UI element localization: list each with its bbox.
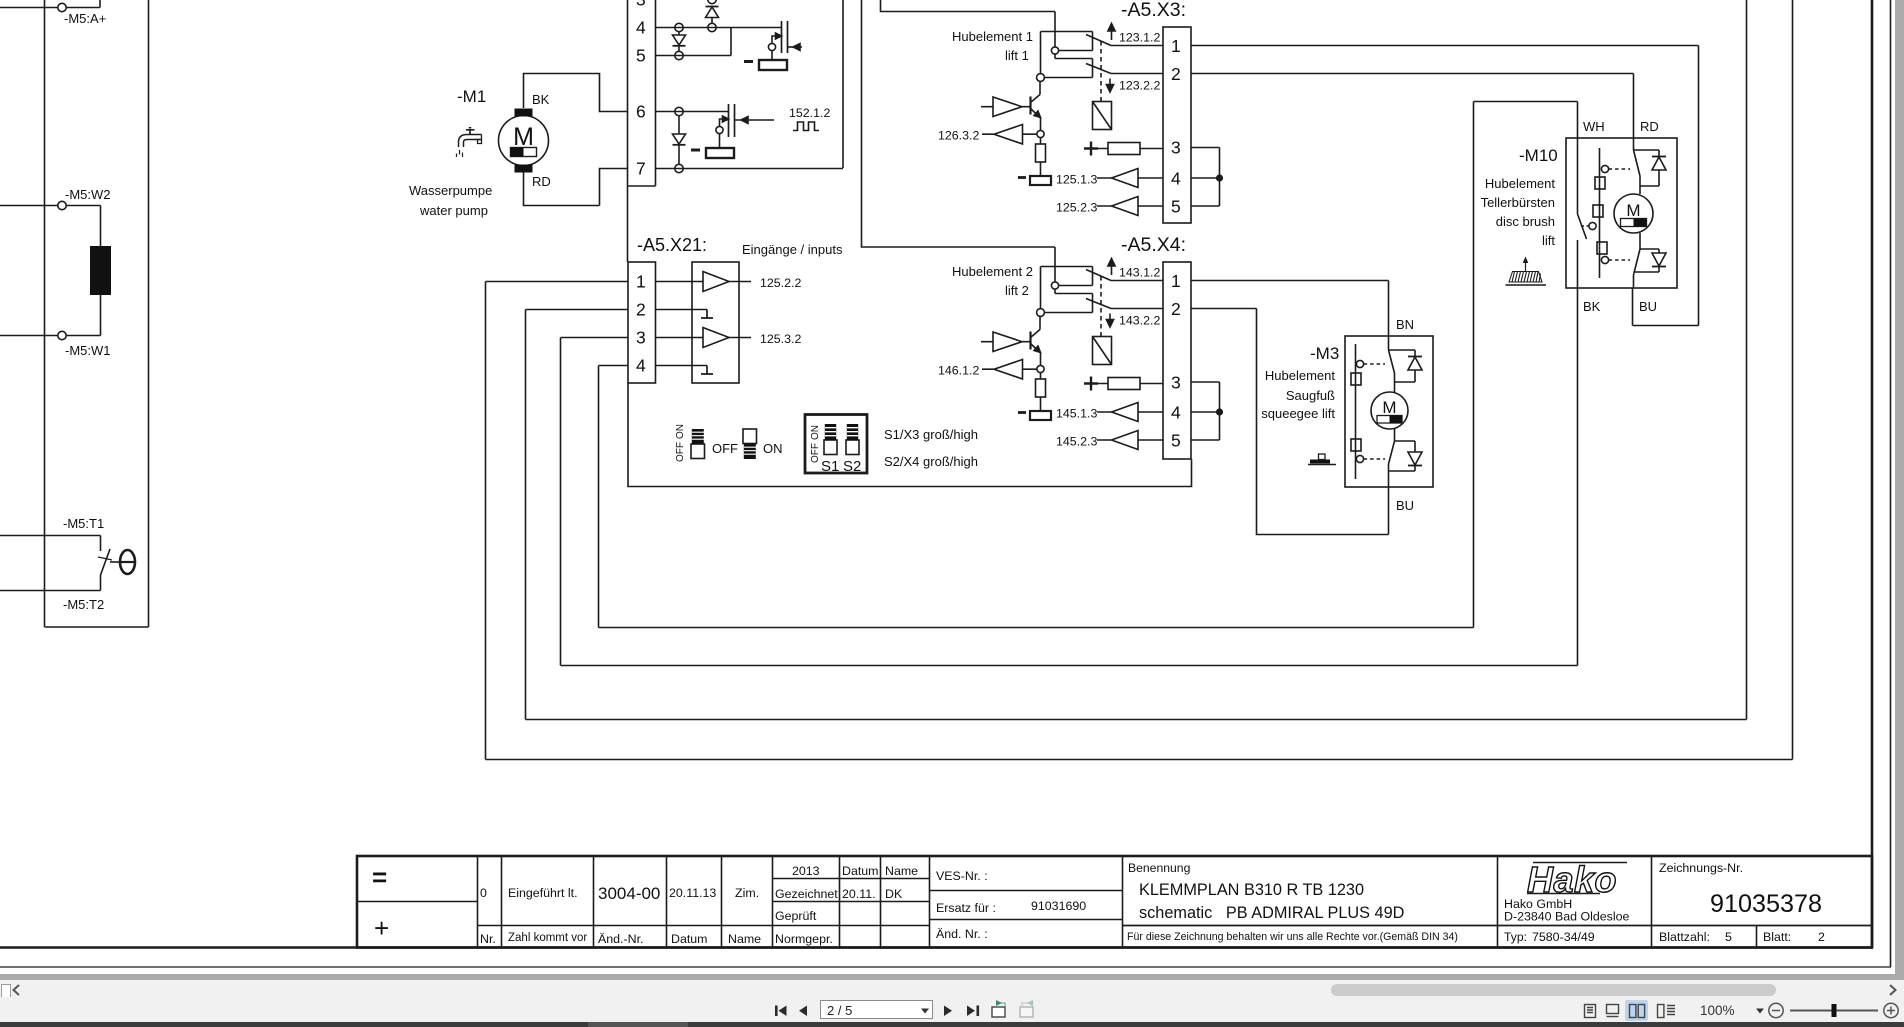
BU wire from X3 pin1 xyxy=(1633,46,1699,326)
svg-text:S2: S2 xyxy=(843,458,861,475)
svg-text:Name: Name xyxy=(885,864,918,878)
wire to pin1 xyxy=(1111,45,1163,47)
svg-text:-M3: -M3 xyxy=(1310,344,1339,363)
emitter node xyxy=(1037,365,1044,372)
legend switch A (ON up) xyxy=(691,429,705,459)
M3 H-bridge box xyxy=(1345,336,1433,487)
zoom in button xyxy=(1884,1003,1898,1017)
diode D-c (pins6-7 column) xyxy=(678,116,680,134)
svg-text:91035378: 91035378 xyxy=(1710,890,1822,918)
switch blade up xyxy=(1086,270,1111,281)
plus supply to pin3 xyxy=(1084,377,1098,391)
svg-text:Zim.: Zim. xyxy=(735,886,759,900)
svg-text:RD: RD xyxy=(1640,119,1659,134)
next-view icon (disabled) xyxy=(1020,1000,1033,1017)
svg-text:Datum: Datum xyxy=(842,864,879,878)
svg-text:-A5.X4:: -A5.X4: xyxy=(1121,234,1186,256)
svg-text:BN: BN xyxy=(1396,317,1414,332)
diode D-b (pins4-5 column) xyxy=(678,32,680,35)
faucet icon xyxy=(457,127,482,157)
wire to pin1 xyxy=(1111,280,1163,282)
up arrow 143.1.2 xyxy=(1111,265,1113,275)
thermal switch contact xyxy=(101,549,111,575)
svg-text:91031690: 91031690 xyxy=(1031,899,1086,913)
up arrow 123.1.2 xyxy=(1111,30,1113,40)
svg-text:6: 6 xyxy=(636,102,646,122)
connector -A5.X4 box xyxy=(1163,262,1191,459)
svg-text:lift: lift xyxy=(1542,233,1555,248)
driver buffer 2 (input 126.3.2) xyxy=(994,125,1023,145)
view icon 3 two page xyxy=(1630,1005,1645,1018)
svg-text:Wasserpumpe: Wasserpumpe xyxy=(409,183,492,198)
bridge switch top xyxy=(1634,150,1641,194)
prev-view icon xyxy=(992,1000,1005,1017)
wire row5 xyxy=(656,28,732,56)
transistor Q3 xyxy=(1029,97,1031,115)
motor M10 xyxy=(1614,194,1653,233)
svg-text:145.1.3: 145.1.3 xyxy=(1056,407,1097,421)
node row5 xyxy=(675,51,683,59)
svg-text:20.11.13: 20.11.13 xyxy=(669,886,716,900)
svg-text:7: 7 xyxy=(636,159,646,179)
svg-text:143.1.2: 143.1.2 xyxy=(1119,266,1160,280)
svg-text:Gezeichnet: Gezeichnet xyxy=(775,887,838,901)
resistor element M5:W (filled) xyxy=(90,246,111,295)
svg-text:125.2.2: 125.2.2 xyxy=(760,276,801,290)
svg-text:Ersatz für :: Ersatz für : xyxy=(936,901,996,915)
svg-text:Zahl kommt vor: Zahl kommt vor xyxy=(508,932,587,944)
M10 H-bridge box xyxy=(1566,138,1677,288)
svg-text:20.11.: 20.11. xyxy=(842,887,876,901)
freewheel diode top xyxy=(1634,150,1660,156)
switch blade down xyxy=(1086,64,1111,74)
wire X21 pin2 loop xyxy=(526,0,1747,720)
svg-text:Hubelement: Hubelement xyxy=(1485,176,1555,191)
svg-text:125.3.2: 125.3.2 xyxy=(760,332,801,346)
wire X21 pin1 loop (outermost) xyxy=(486,0,1793,760)
PDF viewer chrome xyxy=(1895,0,1904,980)
feed wire from top xyxy=(862,0,1056,282)
svg-text:Zeichnungs-Nr.: Zeichnungs-Nr. xyxy=(1659,861,1743,875)
svg-text:Tellerbürsten: Tellerbürsten xyxy=(1481,195,1555,210)
zoom out button xyxy=(1769,1003,1783,1017)
svg-text:BU: BU xyxy=(1396,498,1414,513)
svg-text:1: 1 xyxy=(636,272,646,292)
freewheel diode top xyxy=(1389,350,1416,356)
svg-text:123.2.2: 123.2.2 xyxy=(1119,79,1160,93)
DIP S1 xyxy=(824,424,837,455)
svg-text:126.3.2: 126.3.2 xyxy=(938,129,979,143)
down arrow 123.2.2 xyxy=(1109,79,1111,86)
svg-text:-M5:A+: -M5:A+ xyxy=(64,11,106,26)
svg-text:+: + xyxy=(374,913,389,943)
resistor xyxy=(1036,379,1046,397)
pin1 wire to M3 bridge xyxy=(1191,280,1389,282)
page dropdown caret xyxy=(921,1009,929,1014)
contact rail xyxy=(1599,148,1601,278)
svg-text:S1/X3 groß/high: S1/X3 groß/high xyxy=(884,427,978,442)
svg-text:Eingeführt lt.: Eingeführt lt. xyxy=(508,886,578,900)
svg-text:RD: RD xyxy=(532,174,551,189)
nav last-page button xyxy=(967,1006,979,1017)
view icon 2 xyxy=(1607,1005,1619,1017)
svg-text:Blatt:: Blatt: xyxy=(1763,930,1791,944)
freewheel diode bottom xyxy=(1640,249,1659,253)
wire X21 pin4 loop xyxy=(599,102,1578,628)
svg-text:2: 2 xyxy=(1171,64,1181,84)
scrollbar left chevron xyxy=(14,985,20,995)
driver section box right edge xyxy=(842,0,844,168)
drawing frame right inner (thick) xyxy=(1871,0,1874,947)
title block outer border xyxy=(357,856,1872,948)
freewheel diode bottom xyxy=(1395,441,1416,452)
svg-text:VES-Nr. :: VES-Nr. : xyxy=(936,869,988,883)
svg-text:Typ:: Typ: xyxy=(1504,930,1527,944)
svg-text:-M1: -M1 xyxy=(457,87,486,106)
svg-text:ON: ON xyxy=(763,441,783,456)
svg-text:schematic PB ADMIRAL PLUS 49: schematic PB ADMIRAL PLUS 49D xyxy=(1139,904,1404,922)
svg-text:-A5.X21:: -A5.X21: xyxy=(637,235,707,255)
svg-text:OFF: OFF xyxy=(675,442,686,462)
pins 3-4-5 tie xyxy=(1191,382,1220,440)
connector -A5.X21 box xyxy=(628,262,656,383)
svg-text:145.2.3: 145.2.3 xyxy=(1056,435,1097,449)
svg-text:lift 1: lift 1 xyxy=(1005,48,1029,63)
rail contact top xyxy=(1356,360,1363,367)
bridge switch bottom xyxy=(1389,429,1395,487)
svg-text:D-23840 Bad Oldesloe: D-23840 Bad Oldesloe xyxy=(1504,910,1629,924)
diode D-a (pins3-4 column) xyxy=(708,0,716,4)
connector -A5.X3 box xyxy=(1163,27,1191,223)
svg-text:OFF: OFF xyxy=(810,443,821,463)
wire X21 pin3 loop xyxy=(561,240,1578,666)
rail contact top xyxy=(1601,165,1608,172)
nav prev button xyxy=(799,1006,807,1017)
wire pin1 to buffer xyxy=(656,281,704,283)
svg-text:4: 4 xyxy=(636,18,646,38)
terminal -M5:W2 xyxy=(0,205,58,207)
MOSFET Q-a xyxy=(781,21,783,53)
node row7 xyxy=(675,164,683,172)
switch blade up xyxy=(1086,35,1111,46)
svg-text:S1: S1 xyxy=(821,458,839,475)
svg-text:143.2.2: 143.2.2 xyxy=(1119,314,1160,328)
pulse waveform symbol xyxy=(793,122,819,131)
ground (supply minus) Q-b xyxy=(719,134,721,148)
svg-text:Änd.-Nr.: Änd.-Nr. xyxy=(598,932,643,946)
lift switch cluster xyxy=(1041,32,1093,74)
svg-text:M: M xyxy=(1626,201,1640,220)
drawing frame outer thin bottom xyxy=(0,966,1891,968)
contact rail xyxy=(1355,344,1357,479)
svg-text:3: 3 xyxy=(636,0,646,10)
svg-text:123.1.2: 123.1.2 xyxy=(1119,31,1160,45)
rail contact bottom xyxy=(1597,242,1607,254)
RD feed from X3 pin2 xyxy=(1633,74,1635,151)
drawing frame bottom inner (thick) xyxy=(0,946,1873,949)
svg-text:0: 0 xyxy=(480,886,487,900)
svg-text:2: 2 xyxy=(1171,299,1181,319)
svg-text:Hubelement: Hubelement xyxy=(1265,368,1335,383)
buffer amp 2 xyxy=(703,328,729,348)
svg-text:Datum: Datum xyxy=(671,932,708,946)
pin2 wire to M10 bridge xyxy=(1191,73,1634,75)
solenoid xyxy=(1093,102,1112,130)
wire pin2 to internal ground xyxy=(656,309,708,311)
lift switch cluster xyxy=(1041,267,1093,309)
pin2 wire to M3 bridge xyxy=(1191,308,1257,310)
driver buffer 1 xyxy=(993,332,1022,352)
drawing frame outer thin right xyxy=(1890,0,1892,967)
ground (supply minus) xyxy=(1030,411,1051,420)
wire to pin2 xyxy=(1111,73,1163,75)
svg-text:-A5.X3:: -A5.X3: xyxy=(1121,0,1186,21)
svg-text:-M5:W2: -M5:W2 xyxy=(65,187,111,202)
svg-text:2: 2 xyxy=(636,300,646,320)
plus supply to pin3 xyxy=(1084,142,1098,156)
svg-text:-M5:T2: -M5:T2 xyxy=(63,597,104,612)
ground (supply minus) xyxy=(1030,176,1051,185)
view icon 1 xyxy=(1585,1005,1596,1018)
squeegee icon xyxy=(1308,464,1336,466)
svg-text:DK: DK xyxy=(885,887,903,901)
svg-text:Geprüft: Geprüft xyxy=(775,909,817,923)
svg-text:2: 2 xyxy=(1818,930,1825,944)
connector block (top, partially cut) xyxy=(628,0,656,186)
Hako logo xyxy=(1527,859,1627,900)
DIP S2 xyxy=(846,424,859,455)
input buffer box xyxy=(692,262,739,383)
bridge switch bottom xyxy=(1634,233,1641,288)
svg-text:Hubelement 2: Hubelement 2 xyxy=(952,264,1033,279)
actuator linkage (dashed) xyxy=(1100,41,1102,101)
actuator linkage (dashed) xyxy=(1100,276,1102,336)
svg-text:BK: BK xyxy=(532,92,550,107)
svg-text:Für diese Zeichnung behalten w: Für diese Zeichnung behalten wir uns all… xyxy=(1127,931,1458,943)
svg-text:Eingänge / inputs: Eingänge / inputs xyxy=(742,242,843,257)
legend switch B (OFF down) xyxy=(743,429,757,459)
svg-text:3: 3 xyxy=(1171,138,1181,158)
zoom slider xyxy=(1790,1010,1878,1012)
wire pin4 to internal ground xyxy=(656,365,708,367)
resistor xyxy=(1036,144,1046,162)
svg-text:disc brush: disc brush xyxy=(1496,214,1555,229)
svg-text:-M5:W1: -M5:W1 xyxy=(65,343,111,358)
driver buffer 1 xyxy=(993,97,1022,117)
connector link from M1 block down xyxy=(627,186,629,262)
switch blade down xyxy=(1086,299,1111,309)
wire row7 xyxy=(656,168,844,170)
svg-text:Benennung: Benennung xyxy=(1128,861,1190,875)
node row4-a xyxy=(675,23,683,31)
svg-text:Saugfuß: Saugfuß xyxy=(1286,388,1335,403)
svg-text:5: 5 xyxy=(1171,431,1181,451)
svg-text:water pump: water pump xyxy=(419,203,488,218)
svg-text:146.1.2: 146.1.2 xyxy=(938,364,979,378)
MOSFET Q-b xyxy=(728,104,730,137)
svg-text:Nr.: Nr. xyxy=(480,932,496,946)
svg-text:lift 2: lift 2 xyxy=(1005,283,1029,298)
internal ground 1 xyxy=(701,310,713,319)
nav first-page button xyxy=(775,1006,787,1017)
svg-text:WH: WH xyxy=(1583,119,1605,134)
svg-text:3: 3 xyxy=(636,328,646,348)
svg-text:ON: ON xyxy=(675,424,686,439)
wire row4 xyxy=(656,27,782,29)
svg-text:4: 4 xyxy=(636,356,646,376)
DIP switch block S1/S2 xyxy=(805,415,867,474)
svg-text:152.1.2: 152.1.2 xyxy=(789,106,830,120)
svg-text:5: 5 xyxy=(1171,197,1181,217)
feed wire from top xyxy=(881,0,1056,47)
nav next button xyxy=(944,1006,952,1017)
solenoid xyxy=(1093,337,1112,365)
svg-text:ON: ON xyxy=(810,425,821,440)
svg-text:5: 5 xyxy=(636,46,646,66)
svg-text:Änd. Nr. :: Änd. Nr. : xyxy=(936,927,988,941)
left terminal box xyxy=(45,0,149,627)
scrollbar right chevron xyxy=(1890,985,1896,995)
emitter node xyxy=(1037,130,1044,137)
wire to pin2 xyxy=(1111,308,1163,310)
svg-text:1: 1 xyxy=(1171,36,1181,56)
theta temperature symbol xyxy=(110,561,119,563)
buffer amp 1 xyxy=(703,272,729,292)
row lines xyxy=(357,901,478,903)
svg-text:Name: Name xyxy=(728,932,761,946)
svg-text:3: 3 xyxy=(1171,373,1181,393)
motor M3 xyxy=(1371,392,1408,429)
BU return wire (X4 pin2) xyxy=(1257,309,1389,535)
pins 3-4-5 tie xyxy=(1191,148,1220,207)
zoom dropdown caret xyxy=(1756,1009,1764,1014)
svg-text:125.2.3: 125.2.3 xyxy=(1056,201,1097,215)
svg-text:BU: BU xyxy=(1639,299,1657,314)
svg-text:S2/X4 groß/high: S2/X4 groß/high xyxy=(884,454,978,469)
wire pin3 to buffer xyxy=(656,337,704,339)
svg-text:7580-34/49: 7580-34/49 xyxy=(1532,930,1595,944)
svg-text:M: M xyxy=(1382,398,1396,417)
svg-text:Normgepr.: Normgepr. xyxy=(775,932,833,946)
driver buffer 2 (input 146.1.2) xyxy=(994,360,1023,380)
bridge switch top xyxy=(1389,350,1395,392)
svg-text:Blattzahl:: Blattzahl: xyxy=(1659,930,1710,944)
wire M1 top to pin6 xyxy=(524,74,628,112)
terminal -M5:A+ xyxy=(0,7,58,9)
wire row6 xyxy=(656,111,729,113)
svg-text:125.1.3: 125.1.3 xyxy=(1056,173,1097,187)
disc brush icon xyxy=(1506,257,1547,286)
svg-text:5: 5 xyxy=(1725,930,1732,944)
wire M1 bottom to pin7 xyxy=(524,169,628,206)
motor M1 xyxy=(499,116,549,166)
svg-text:4: 4 xyxy=(1171,169,1181,189)
svg-text:2013: 2013 xyxy=(792,864,820,878)
node row4-b xyxy=(708,23,716,31)
svg-text:Hubelement 1: Hubelement 1 xyxy=(952,29,1033,44)
svg-text:3004-00: 3004-00 xyxy=(598,884,660,903)
node row6 xyxy=(675,107,683,115)
X21 section outline xyxy=(628,383,1192,487)
svg-text:4: 4 xyxy=(1171,403,1181,423)
terminal -M5:W1 xyxy=(67,295,101,336)
svg-text:=: = xyxy=(372,862,387,892)
down arrow 143.2.2 xyxy=(1109,314,1111,321)
svg-text:-M10: -M10 xyxy=(1519,146,1558,165)
svg-text:OFF: OFF xyxy=(712,441,738,456)
svg-text:BK: BK xyxy=(1583,299,1601,314)
svg-text:1: 1 xyxy=(1171,271,1181,291)
BN feed wire (X4 pin1) xyxy=(1388,281,1390,351)
rail contact bottom xyxy=(1351,439,1361,451)
rail contact mid (limit switch link) xyxy=(1593,205,1603,217)
internal ground 2 xyxy=(701,366,713,375)
M10 lift limit switch xyxy=(1578,214,1587,239)
svg-text:squeegee lift: squeegee lift xyxy=(1261,406,1335,421)
column lines xyxy=(478,856,1652,948)
transistor Q4 xyxy=(1029,332,1031,350)
pin1 wire to M10 bridge xyxy=(1191,45,1699,47)
view icon 4 xyxy=(1658,1005,1676,1018)
svg-text:KLEMMPLAN B310 R TB 1230: KLEMMPLAN B310 R TB 1230 xyxy=(1139,881,1364,899)
svg-text:-M5:T1: -M5:T1 xyxy=(63,516,104,531)
ground (supply minus) Q-a xyxy=(771,51,773,60)
